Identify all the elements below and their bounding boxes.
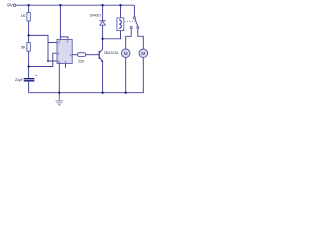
wire IC pin3 output to R3 [72,54,77,56]
op-amp U1 555 timer body [57,39,72,63]
svg-text:M: M [124,51,128,56]
ground [56,93,64,106]
wire bottom rail [29,58,144,93]
switch armature [135,19,138,26]
node 9V terminal [14,4,16,6]
node ground rail-pin1 junction [58,92,60,94]
wire node A to IC pin7 pin2 feed [29,35,57,61]
node ground rail-M1 junction [125,92,127,94]
transistor Q1 emitter arrow [101,60,103,62]
relay RL1 coil box [117,18,124,31]
transistor Q1 base bar [99,51,100,59]
motor M2 [139,49,148,58]
svg-text:1N4001: 1N4001 [90,13,102,17]
wire R2 to node B to C1 [28,51,30,78]
svg-text:+: + [35,74,37,78]
wire pin7 branch [48,42,57,44]
resistor R1 1K [27,13,30,22]
motor M1 [121,49,130,58]
wire node B to IC pin6 feed [29,53,57,66]
wire switch common drop [133,5,135,17]
wire R1 to node A to R2 [28,21,30,42]
wire right contact to motor M2 [138,29,144,49]
svg-text:M: M [141,51,145,56]
wire diode column from rail [102,5,104,20]
wire motor M1 to bottom rail [125,58,127,93]
svg-text:5K: 5K [21,44,26,49]
wire IC pin5 stub [65,64,67,68]
svg-text:1K: 1K [21,13,26,18]
node rail-diode junction [101,4,103,6]
capacitor C1 plate bottom [24,80,35,81]
wire emitter drop to rail [102,61,104,92]
wire IC vcc riser [59,5,61,39]
transistor Q1 emitter stroke [100,58,103,62]
node rail-R1 junction [27,4,29,6]
wire coil top from rail [120,5,122,18]
wire C1 to bottom rail [28,81,30,92]
wire diode anode to collector tie [102,25,104,39]
wire IC pin1 to ground rail [58,64,60,93]
node trigger arrow [47,60,50,62]
wire 9V rail to R1 [28,5,30,12]
svg-text:9V: 9V [7,3,14,8]
relay linkage dashed [124,21,134,23]
transistor Q1 collector stroke [100,49,103,53]
switch pivot [133,17,135,19]
node rail-coil junction [119,4,121,6]
wire top rail [16,4,134,6]
capacitor C1 22uF plate top [24,78,35,79]
node rail-Vcc junction [59,4,61,6]
wire collector riser [102,39,104,49]
node collector-diode-coil junction [101,38,103,40]
wire tie collector to coil [103,31,121,39]
switch contact right [137,26,139,28]
wire IC pin8 top connector [60,37,68,40]
node A R1-R2 junction [27,34,29,36]
relay coil windings [119,20,121,28]
switch contact left [130,26,132,28]
resistor R2 5K [27,42,30,51]
resistor R3 220 [78,53,86,57]
svg-text:2N2222A: 2N2222A [104,51,119,55]
svg-text:220: 220 [78,60,84,64]
wire R3 to Q1 base [86,54,99,56]
diode D1 cathode bar [100,20,106,21]
diode D1 triangle [100,22,106,26]
node ground rail-emitter junction [101,92,103,94]
wire left contact to motor M1 [126,29,132,49]
node B R2-C1 junction [27,65,29,67]
svg-text:22µF: 22µF [15,78,23,82]
